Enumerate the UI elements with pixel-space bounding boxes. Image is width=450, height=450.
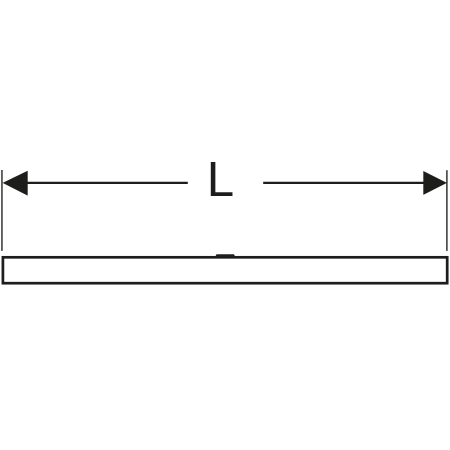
extension line right xyxy=(446,170,448,251)
dimension line right segment xyxy=(263,182,424,184)
svg-text:L: L xyxy=(207,152,234,207)
extension line left xyxy=(1,170,3,251)
tab bump on top of bar xyxy=(214,254,236,258)
profile bar rectangle xyxy=(3,257,447,283)
dimension line left segment xyxy=(26,182,188,184)
arrowhead left xyxy=(3,171,28,196)
arrowhead right xyxy=(423,171,447,195)
